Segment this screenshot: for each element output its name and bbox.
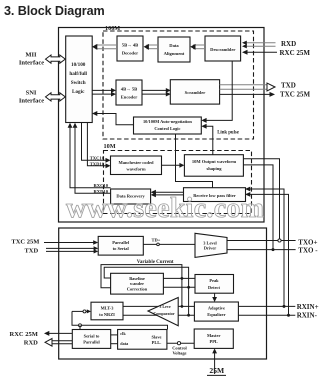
svg-text:Interface: Interface xyxy=(19,97,44,104)
svg-text:Link pulse: Link pulse xyxy=(217,130,239,135)
svg-text:to NRZI: to NRZI xyxy=(99,312,115,317)
svg-text:Alignment: Alignment xyxy=(164,51,185,56)
svg-text:10M Output waveform: 10M Output waveform xyxy=(192,159,236,164)
svg-text:RXIN+: RXIN+ xyxy=(297,303,319,311)
svg-text:half/full: half/full xyxy=(69,71,87,77)
svg-text:PLL.: PLL. xyxy=(152,340,162,345)
svg-text:SNI: SNI xyxy=(26,89,37,96)
svg-text:MII: MII xyxy=(25,52,37,59)
svg-text:data: data xyxy=(120,341,129,346)
svg-text:to Serial: to Serial xyxy=(113,246,130,251)
svg-text:RXC 25M: RXC 25M xyxy=(10,331,38,338)
svg-text:Interface: Interface xyxy=(19,60,44,67)
svg-text:RXD: RXD xyxy=(24,340,38,347)
svg-text:Parrallel: Parrallel xyxy=(83,339,100,344)
svg-text:10/100M Auto-negotiation: 10/100M Auto-negotiation xyxy=(143,119,192,124)
svg-text:Master: Master xyxy=(207,333,220,338)
svg-text:RXC 25M: RXC 25M xyxy=(280,49,311,57)
svg-text:Parrallel: Parrallel xyxy=(112,240,130,245)
svg-text:Detect: Detect xyxy=(208,285,220,290)
svg-text:4B→ 5B: 4B→ 5B xyxy=(121,87,137,92)
svg-text:shaping: shaping xyxy=(206,166,222,171)
svg-text:Descrambler: Descrambler xyxy=(210,47,235,52)
svg-text:Slave: Slave xyxy=(151,334,161,339)
svg-text:Encoder: Encoder xyxy=(121,95,138,100)
svg-text:100M: 100M xyxy=(105,25,120,32)
svg-text:www.seekic.com: www.seekic.com xyxy=(66,193,264,224)
svg-text:Adaptive: Adaptive xyxy=(208,305,225,310)
svg-text:TXD: TXD xyxy=(24,247,38,254)
svg-text:3 Leve: 3 Leve xyxy=(159,304,170,309)
svg-text:TXO+: TXO+ xyxy=(298,238,317,246)
svg-text:PPL: PPL xyxy=(210,339,218,344)
svg-text:Scrambler: Scrambler xyxy=(185,90,206,95)
svg-text:Serial to: Serial to xyxy=(84,334,101,339)
svg-text:TXC 25M: TXC 25M xyxy=(11,239,39,246)
svg-text:clk: clk xyxy=(120,331,126,336)
svg-text:5B→ 4B: 5B→ 4B xyxy=(122,43,138,48)
svg-text:10/100: 10/100 xyxy=(71,62,86,68)
svg-text:waveform: waveform xyxy=(126,167,145,172)
svg-text:TXC10: TXC10 xyxy=(90,156,105,161)
svg-text:Voltage: Voltage xyxy=(173,351,187,356)
svg-text:TD+: TD+ xyxy=(152,238,161,243)
svg-text:MLT-3: MLT-3 xyxy=(101,306,115,311)
svg-text:Variable Current: Variable Current xyxy=(137,260,174,265)
svg-text:RXD: RXD xyxy=(281,40,296,48)
svg-text:Decoder: Decoder xyxy=(122,51,138,56)
svg-text:TXD: TXD xyxy=(281,82,296,90)
svg-text:RXC10: RXC10 xyxy=(93,183,108,188)
svg-text:Correction: Correction xyxy=(127,286,148,291)
svg-text:Switch: Switch xyxy=(71,80,86,86)
svg-text:TXO -: TXO - xyxy=(298,247,318,255)
svg-text:Manchester coded: Manchester coded xyxy=(118,160,154,165)
svg-text:TXC 25M: TXC 25M xyxy=(280,91,311,99)
svg-text:10M: 10M xyxy=(104,143,116,150)
svg-text:Control Logic: Control Logic xyxy=(154,126,180,131)
svg-text:RXIN-: RXIN- xyxy=(297,312,318,320)
svg-text:TXD10: TXD10 xyxy=(90,161,105,166)
svg-text:Comparator: Comparator xyxy=(153,311,175,316)
svg-text:3. Block Diagram: 3. Block Diagram xyxy=(4,4,105,18)
svg-text:Logic: Logic xyxy=(72,89,85,95)
svg-text:Equalizer: Equalizer xyxy=(207,312,225,317)
svg-text:Peak: Peak xyxy=(209,278,219,283)
svg-text:25M: 25M xyxy=(209,366,224,375)
svg-text:Driver: Driver xyxy=(204,245,216,250)
svg-text:Data: Data xyxy=(169,43,179,48)
